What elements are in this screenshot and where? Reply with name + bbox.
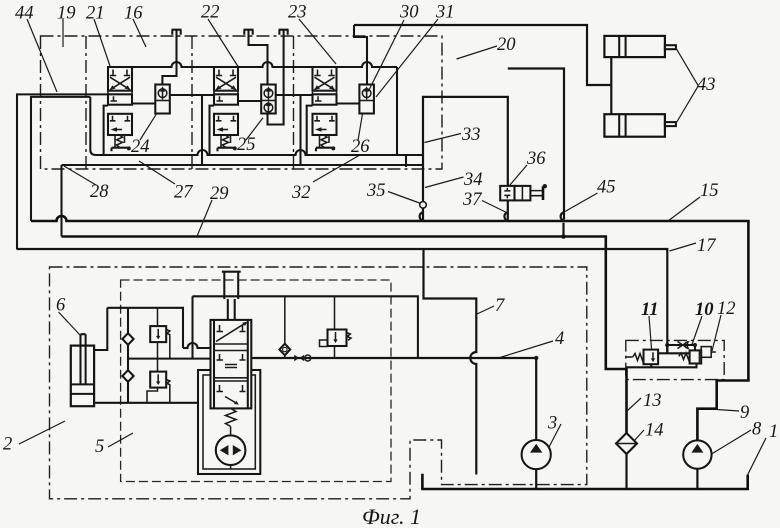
directional valve 22 main section [214,67,238,91]
wire regulator right rail [193,296,418,358]
directional valve 23 middle band [313,91,337,95]
wire pin2 to check valve 25 [249,30,268,85]
feedback loop outer box [198,370,260,474]
check valve 25 ball symbol [264,86,273,99]
port pin symbol 2 [244,30,254,35]
wire cylinder 6 bottom port rail [94,402,198,404]
wire module2 drain drop [201,95,203,165]
wire left feed upper [17,94,108,249]
label 25 [237,118,263,155]
wire valve22 pilot drop [210,106,215,155]
junction hook line45 to bus1 [561,212,564,221]
crossed-arrows symbol of valve 10 [678,341,690,350]
svg-text:13: 13 [643,391,662,411]
dash-dot enclosure box around valves 10-12 [626,340,724,379]
label 36 [510,149,547,186]
svg-text:22: 22 [201,3,220,23]
svg-text:34: 34 [463,170,483,190]
spring of valve 10 [679,353,690,360]
wire left feed lower [31,97,90,221]
wire line 45 [508,69,564,237]
label 16 [124,4,146,48]
wire regulator top rail [107,308,183,348]
cylinder 6 body [71,346,94,407]
valve 22 return spring [221,135,231,148]
directional valve 23 third section [313,114,337,135]
regulator valve body [211,320,252,409]
valve 23 drain bar [316,146,335,151]
relief valve lower left [150,372,170,388]
wire drop from valve-top rail to drain collector [396,67,398,155]
svg-text:27: 27 [174,183,193,203]
wire right rail drop at corner [191,296,193,358]
filter 14 lower drain [625,454,627,489]
solenoid box 12 [701,347,716,358]
label 37 [462,190,507,213]
caption Фиг. 1 [362,504,421,528]
wire valve21 to check24 [132,102,155,104]
label 7 [477,296,505,316]
dash-dot enclosure box 2 (lower-left frame) [50,267,587,499]
wire node to tank bus [422,208,424,220]
svg-text:43: 43 [697,75,716,95]
relief valve upper left [150,326,170,342]
label 43 [697,75,716,95]
wire valve-top rail segment b with hop [238,62,313,67]
regulator spring [226,408,237,426]
check valve 24 body [155,85,170,114]
pressure valve 10 body [690,350,702,363]
svg-text:2: 2 [3,435,12,455]
wire top supply line to cylinders [354,25,611,85]
pump 8 [683,440,711,468]
label 2 [3,421,65,455]
leader lines to label 43 [676,48,698,124]
label 20 [457,35,517,59]
throttle valve 36 [500,184,547,200]
cylinder 6 rod [81,334,86,384]
directional valve 22 second section [214,94,238,104]
label 29 [197,184,229,236]
svg-text:29: 29 [210,184,229,204]
wire block bottom return [627,364,697,368]
directional valve 22 middle band [214,91,238,95]
svg-text:3: 3 [547,414,557,434]
svg-text:12: 12 [717,299,736,319]
wire valve22 to check25 [238,100,261,102]
directional valve 22 third section [214,114,238,135]
hydraulic cylinder 43 upper [604,36,676,57]
dash-dot module divider 3 [293,36,295,169]
svg-text:33: 33 [461,125,481,145]
wire valve23 pilot drop [307,106,313,155]
relief valve 11 [644,350,659,365]
wire drain line L2 [62,155,424,165]
svg-text:1: 1 [769,422,778,442]
wire block left feed [626,356,633,358]
wire L2 drop to tank bus [60,165,62,237]
svg-text:8: 8 [752,420,762,440]
dash-dot module divider 2 [191,36,193,169]
junction dot block upper rail [693,343,697,347]
svg-text:45: 45 [597,178,616,198]
regulator pump [216,427,246,470]
label 3 [547,414,561,448]
label 45 [565,178,616,212]
label 33 [425,125,481,145]
svg-text:5: 5 [95,437,104,457]
svg-text:36: 36 [526,149,546,169]
label 34 [425,170,483,190]
svg-text:35: 35 [366,181,386,201]
svg-text:23: 23 [288,3,307,23]
wire valve21 pilot drop [104,106,108,155]
filter 14 [616,433,637,454]
svg-text:6: 6 [56,296,66,316]
label 32 [291,156,359,204]
check diamond lower [122,370,133,382]
relief valve right [320,330,352,347]
port pin symbol 3 [279,30,289,35]
label 30 [369,3,420,92]
wire between cylinder caps [610,57,612,114]
label 26 [351,114,370,157]
wire feed to check valve 26 [354,25,367,85]
label 23 [288,3,336,65]
hydraulic cylinder 43 lower [604,114,676,137]
wire rail B left [128,358,211,360]
bottom tank bus [422,474,747,489]
valve 22 drain bar [218,146,237,151]
label 5 [95,433,133,457]
label 15 [668,181,719,221]
wire valve-top rail segment a with hop [132,62,214,67]
label 31 [376,3,455,98]
spring of valve 11 [633,354,644,361]
label 13 [627,391,662,411]
label 8 [712,420,763,455]
svg-text:26: 26 [351,137,370,157]
directional valve 23 main section [313,67,337,91]
line 17 bus [17,249,668,353]
label 24 [131,114,157,157]
wire block mid rail [658,352,690,354]
svg-text:15: 15 [700,181,719,201]
relief lower connections [147,359,170,403]
svg-text:25: 25 [237,135,256,155]
svg-text:21: 21 [86,4,105,24]
label 35 [366,181,420,203]
svg-text:17: 17 [697,236,716,256]
wire frame of node box 33/34 left edge [423,97,508,202]
feedback loop inner box [203,375,255,469]
directional valve 21 third section [108,114,132,135]
wire valve-top rail segment c with hop [337,62,398,67]
wire valve23 to check26 [337,102,360,104]
svg-text:37: 37 [462,190,482,210]
node 35 circle [420,202,427,209]
label 19 [57,4,76,48]
svg-text:4: 4 [555,329,564,349]
directional valve 21 main section [108,67,132,91]
junction dot line 4 / pump 3 riser [534,356,538,360]
pump 3 riser [535,358,537,440]
dashed enclosure box 5 (pump regulator frame) [121,280,391,482]
orifice symbol on line 4 [294,355,311,361]
pump 3 [522,440,551,469]
directional valve 21 second section [108,94,132,104]
label 9 [717,403,749,423]
svg-text:20: 20 [497,35,516,55]
directional valve 23 second section [313,94,337,104]
junction dot line45 on bus2 [561,234,566,239]
svg-text:7: 7 [495,296,505,316]
svg-text:44: 44 [15,4,34,24]
wire block upper rail [667,345,696,353]
check valve 24 ball symbol [158,86,167,99]
label 1 [769,422,778,442]
wire pin1 to check valve 24 [162,30,176,85]
label 44 [15,4,57,93]
check diamond upper [122,333,133,345]
directional valve 21 middle band [108,91,132,95]
tank bus 1 with hop [31,216,748,440]
svg-text:9: 9 [740,403,749,423]
check valve 26 ball symbol [362,86,371,99]
wire drain line L1 with hops [90,97,423,155]
relief right connections [334,296,336,358]
pump 8 drain [696,469,698,489]
wire valve 36 drop to bus [507,200,509,219]
valve 23 return spring [320,135,330,148]
label 11 [641,300,658,349]
label 28 [64,166,109,202]
wire feed check25 to valve23 [276,94,313,96]
label 21 [86,4,110,67]
check valve 25 body [261,85,276,114]
check valve 26 body [359,85,374,114]
svg-text:Фиг. 1: Фиг. 1 [362,504,421,528]
svg-text:14: 14 [645,421,664,441]
svg-text:11: 11 [641,300,658,320]
wire pin3 to check valve 25 bottom [268,30,284,125]
wire line 4 [251,357,536,359]
wire check diamond branch [127,308,129,403]
label 6 [56,296,80,336]
wire module3 drain drop [299,95,301,165]
check valve 25 second ball symbol [264,101,273,114]
svg-text:10: 10 [695,300,714,320]
wire line 7 with hop [424,249,477,475]
junction hook valve36 drop to bus1 [504,212,507,221]
label 10 [692,300,714,345]
dash-dot enclosure box 16 (valve group frame) [41,36,443,169]
wire cylinder 6 top port [94,308,107,350]
servo rod [224,272,238,320]
svg-text:19: 19 [57,4,76,24]
svg-text:32: 32 [291,183,311,203]
label 27 [139,161,193,203]
tank bus 2 to line 13 [62,237,627,434]
svg-text:28: 28 [90,182,109,202]
svg-text:30: 30 [399,3,419,23]
dash-dot module divider 1 [85,36,87,169]
label 4 [500,329,564,358]
pump 3 drain [535,469,537,489]
relief upper connections [158,308,170,359]
drain collector end block [405,155,407,167]
label 22 [201,3,238,67]
leader line to label 1 [748,438,766,475]
junction dot line17 [665,343,669,347]
wire feed check24 to valve22 [170,94,214,96]
check diamond branch right [279,296,290,358]
label 12 [712,299,736,351]
servo rod cap [222,271,241,273]
valve 21 drain bar [112,146,131,151]
wire rail A with hop [183,343,211,348]
label 17 [670,236,717,256]
valve 21 return spring [115,135,125,148]
label 14 [634,421,664,442]
junction hook node line to bus1 [420,212,423,221]
port pin symbol 1 [172,30,182,35]
